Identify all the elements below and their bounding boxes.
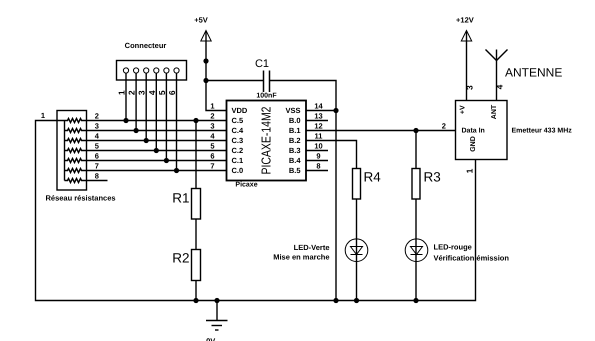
svg-text:LED-Verte: LED-Verte [294, 243, 330, 252]
svg-text:Vérification émission: Vérification émission [434, 254, 510, 263]
svg-text:Emetteur 433 MHz: Emetteur 433 MHz [512, 128, 573, 135]
svg-text:R3: R3 [424, 170, 441, 185]
svg-text:10: 10 [314, 142, 322, 151]
svg-text:C.0: C.0 [232, 166, 244, 175]
svg-text:2: 2 [127, 90, 137, 95]
svg-text:6: 6 [95, 152, 99, 161]
svg-text:+5V: +5V [194, 16, 208, 25]
svg-text:5: 5 [157, 90, 167, 95]
svg-text:PICAXE-14M2: PICAXE-14M2 [258, 107, 273, 175]
svg-text:4: 4 [147, 90, 157, 95]
svg-text:GND: GND [470, 136, 477, 152]
svg-text:ANT: ANT [491, 104, 498, 119]
svg-text:3: 3 [137, 90, 147, 95]
svg-text:1: 1 [210, 102, 214, 111]
svg-text:B.4: B.4 [289, 156, 302, 165]
svg-text:8: 8 [95, 172, 99, 181]
svg-text:Picaxe: Picaxe [235, 181, 257, 189]
svg-text:C.2: C.2 [232, 146, 244, 155]
svg-text:13: 13 [314, 112, 322, 121]
svg-text:1: 1 [465, 168, 475, 173]
svg-text:12: 12 [314, 122, 322, 131]
svg-text:100nF: 100nF [256, 93, 277, 100]
svg-text:5: 5 [95, 142, 99, 151]
svg-text:1: 1 [41, 111, 45, 120]
svg-text:3: 3 [95, 122, 99, 131]
svg-text:B.5: B.5 [289, 166, 301, 175]
svg-text:C.5: C.5 [232, 116, 244, 125]
svg-text:7: 7 [95, 162, 99, 171]
svg-text:+12V: +12V [456, 16, 474, 25]
svg-text:R4: R4 [364, 170, 382, 185]
svg-text:Réseau résistances: Réseau résistances [46, 194, 116, 203]
svg-text:VDD: VDD [232, 106, 248, 115]
svg-text:5: 5 [210, 142, 214, 151]
svg-text:6: 6 [167, 90, 177, 95]
svg-text:B.1: B.1 [289, 126, 301, 135]
svg-text:ANTENNE: ANTENNE [505, 66, 562, 80]
svg-text:4: 4 [494, 84, 504, 89]
svg-text:C.1: C.1 [232, 156, 244, 165]
svg-text:R1: R1 [172, 191, 189, 206]
svg-text:B.2: B.2 [289, 136, 301, 145]
svg-text:Mise en marche: Mise en marche [273, 253, 329, 262]
svg-text:3: 3 [210, 122, 214, 131]
svg-text:3: 3 [465, 85, 475, 90]
svg-text:Data In: Data In [462, 128, 485, 135]
svg-text:R2: R2 [172, 251, 189, 266]
svg-text:C1: C1 [255, 58, 269, 70]
svg-text:0V: 0V [206, 337, 215, 341]
svg-text:1: 1 [117, 90, 127, 95]
svg-text:2: 2 [210, 112, 214, 121]
svg-text:VSS: VSS [285, 106, 300, 115]
svg-text:Connecteur: Connecteur [125, 41, 167, 50]
svg-text:B.3: B.3 [289, 146, 301, 155]
svg-text:2: 2 [442, 122, 446, 131]
svg-text:C.4: C.4 [232, 126, 245, 135]
svg-text:B.0: B.0 [289, 116, 301, 125]
svg-text:2: 2 [95, 112, 99, 121]
svg-text:6: 6 [210, 152, 214, 161]
svg-text:C.3: C.3 [232, 136, 244, 145]
svg-text:11: 11 [315, 132, 323, 141]
svg-text:8: 8 [316, 162, 320, 171]
svg-text:LED-rouge: LED-rouge [434, 243, 472, 252]
svg-text:9: 9 [316, 152, 320, 161]
svg-text:+V: +V [460, 105, 467, 114]
svg-text:14: 14 [314, 102, 323, 111]
svg-text:7: 7 [210, 162, 214, 171]
